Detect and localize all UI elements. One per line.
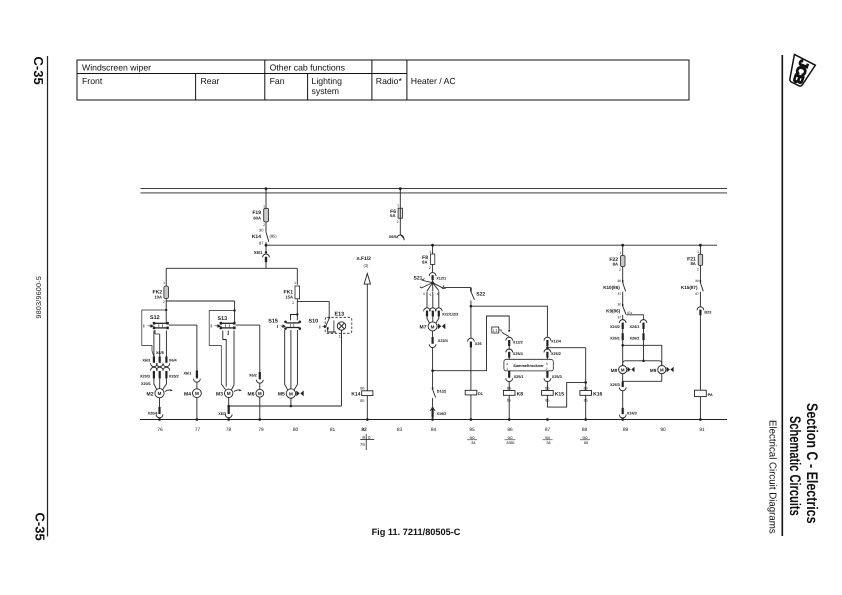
- wire branch to FK2/FK1: [166, 268, 297, 285]
- svg-text:2: 2: [697, 267, 699, 271]
- node M4 ground: [196, 418, 199, 421]
- svg-text:2: 2: [619, 268, 621, 272]
- motor M3: [216, 389, 242, 406]
- svg-text:M6: M6: [248, 391, 255, 397]
- svg-text:85: 85: [360, 399, 364, 403]
- svg-text:60A: 60A: [253, 215, 261, 220]
- svg-text:X26/2: X26/2: [630, 337, 640, 341]
- svg-text:90: 90: [660, 427, 666, 433]
- connector X24/2: [610, 320, 626, 334]
- svg-text:87: 87: [695, 292, 699, 296]
- svg-text:2: 2: [397, 220, 399, 224]
- svg-text:2: 2: [546, 367, 548, 371]
- svg-text:X6/2: X6/2: [249, 373, 257, 377]
- svg-text:2: 2: [429, 266, 431, 270]
- connector X6/3 X6/5 X6/4: [142, 351, 177, 367]
- motor M7 heater fan: [420, 316, 446, 337]
- relay contact K9(86): [606, 303, 632, 320]
- svg-text:76: 76: [157, 427, 163, 433]
- svg-text:M9: M9: [650, 368, 657, 373]
- node F22 top junction: [621, 244, 624, 256]
- switch S21: [414, 276, 447, 298]
- wire to M9 top: [623, 345, 662, 365]
- svg-text:M2: M2: [147, 391, 154, 397]
- svg-text:X6/1: X6/1: [184, 372, 192, 376]
- svg-text:X20/2: X20/2: [169, 375, 179, 379]
- fuse F6 5A: [390, 204, 402, 235]
- motor M4: [184, 389, 201, 420]
- svg-text:91: 91: [699, 427, 705, 433]
- svg-text:Heater / AC: Heater / AC: [411, 76, 456, 86]
- svg-text:K8: K8: [517, 391, 524, 397]
- svg-text:1: 1: [506, 367, 508, 371]
- label 98039600-5: [35, 276, 43, 319]
- svg-text:B23: B23: [704, 310, 711, 314]
- node K16 ground: [584, 418, 587, 421]
- svg-text:X26: X26: [475, 342, 482, 346]
- fuse FK2 10A: [153, 281, 169, 322]
- svg-text:2: 2: [163, 300, 165, 304]
- svg-text:K15: K15: [555, 391, 564, 397]
- svg-text:10A: 10A: [154, 295, 162, 300]
- wire M8 M9 bottoms: [623, 380, 662, 382]
- svg-text:M: M: [289, 391, 293, 396]
- svg-text:Electrical Circuit Diagrams: Electrical Circuit Diagrams: [767, 420, 778, 534]
- svg-text:X6/5: X6/5: [389, 235, 397, 239]
- fuse F19 60A: [252, 204, 268, 228]
- svg-text:88: 88: [582, 427, 588, 433]
- node M7 out junction: [431, 369, 434, 372]
- svg-text:Lighting: Lighting: [312, 76, 343, 86]
- svg-text:86: 86: [507, 427, 513, 433]
- svg-text:X25/1: X25/1: [514, 375, 524, 379]
- svg-text:X12/4: X12/4: [551, 340, 562, 344]
- switch S15: [268, 313, 301, 330]
- resistor PA: [695, 390, 713, 419]
- wire S13 to M6 branch: [236, 325, 260, 372]
- connector X12/2: [506, 337, 523, 350]
- switch S13: [209, 311, 235, 385]
- svg-text:S10: S10: [309, 318, 319, 324]
- right margin rule: [781, 55, 783, 536]
- motor M5 fan: [278, 389, 304, 406]
- svg-text:K15(87): K15(87): [681, 285, 698, 290]
- svg-text:5: 5: [430, 293, 432, 297]
- node F19 top junction: [265, 187, 268, 208]
- connector X24/3: [619, 408, 636, 420]
- svg-text:9803/9600-5: 9803/9600-5: [35, 276, 43, 319]
- node X12/4 junction: [546, 346, 586, 349]
- svg-text:5A: 5A: [390, 213, 395, 218]
- svg-text:X6/1: X6/1: [254, 250, 263, 255]
- label Section C - Electrics: [803, 403, 820, 524]
- svg-text:87: 87: [259, 241, 264, 246]
- svg-text:9|0: 9|0: [508, 436, 513, 440]
- svg-text:C-35: C-35: [33, 513, 48, 541]
- wire S21 outputs: [427, 291, 439, 308]
- connector X12/1: [429, 273, 446, 283]
- wire S15 to M5: [285, 330, 298, 390]
- diode D1: [465, 390, 483, 419]
- svg-text:15A: 15A: [285, 295, 293, 300]
- connector X6/1b M4: [184, 371, 201, 390]
- node K14 ground: [366, 418, 369, 421]
- node 89 ground: [621, 418, 624, 421]
- sheet reference under 82: [360, 434, 374, 450]
- svg-text:PA: PA: [708, 393, 713, 397]
- svg-text:X6/5: X6/5: [156, 351, 164, 355]
- connector X6/1: [254, 245, 270, 268]
- svg-text:M: M: [227, 391, 231, 396]
- label C-35 top: [31, 57, 46, 85]
- svg-text:84: 84: [431, 427, 437, 433]
- svg-text:30: 30: [617, 279, 621, 283]
- svg-text:11: 11: [339, 335, 343, 339]
- motor M8 fan: [611, 366, 635, 382]
- connector X25/4: [506, 349, 524, 359]
- svg-text:M: M: [431, 324, 435, 329]
- svg-text:X25/2: X25/2: [551, 352, 561, 356]
- svg-text:X12/1: X12/1: [436, 276, 446, 280]
- svg-text:30: 30: [695, 279, 699, 283]
- relay coil K16: [580, 387, 603, 420]
- svg-text:K10(86): K10(86): [603, 285, 620, 290]
- svg-text:80: 80: [293, 427, 299, 433]
- relay coil K14: [351, 386, 373, 419]
- svg-text:88: 88: [584, 441, 588, 445]
- switch S10: [309, 317, 337, 332]
- wire S13 outputs to M3: [221, 331, 234, 390]
- connector B23: [697, 307, 711, 390]
- node F8 top junction: [431, 244, 434, 254]
- lamp E13: [325, 312, 352, 406]
- svg-text:3: 3: [546, 362, 548, 366]
- junction box Sammeltrockner: [504, 359, 553, 371]
- motor M2: [147, 378, 173, 397]
- svg-text:75: 75: [360, 442, 365, 447]
- svg-text:Fan: Fan: [270, 76, 285, 86]
- thermostat L1: [492, 327, 510, 337]
- svg-text:89: 89: [623, 427, 629, 433]
- svg-text:1: 1: [697, 250, 699, 254]
- wire M7 out riser: [433, 316, 510, 371]
- motor M9 fan: [650, 366, 674, 382]
- svg-text:K14: K14: [351, 392, 360, 398]
- label C-35 bottom: [33, 513, 48, 541]
- svg-text:87: 87: [618, 292, 622, 296]
- wire FK1 to S10: [297, 301, 329, 317]
- svg-text:X22/1/2/3: X22/1/2/3: [442, 312, 458, 316]
- fuse FK1 15A: [284, 281, 300, 314]
- connector X26/3: [610, 381, 626, 408]
- svg-text:1: 1: [620, 251, 622, 255]
- svg-text:I: I: [143, 324, 144, 329]
- svg-text:Radio*: Radio*: [376, 76, 403, 86]
- wire S22 to X12/4: [471, 306, 548, 337]
- svg-text:L1: L1: [493, 328, 498, 333]
- svg-text:86: 86: [360, 386, 364, 390]
- ground bottom line: [140, 419, 727, 421]
- svg-text:X22/4: X22/4: [438, 339, 449, 343]
- caption Fig 11. 7211/80505-C: [372, 527, 461, 537]
- node X26/1 junction: [621, 344, 624, 347]
- svg-text:1: 1: [429, 250, 431, 254]
- node n.F1/2 feed arrow: [357, 256, 372, 391]
- svg-text:M4: M4: [184, 391, 191, 397]
- svg-text:1: 1: [263, 204, 265, 208]
- node M2 ground: [158, 418, 161, 421]
- svg-text:9|0: 9|0: [583, 436, 588, 440]
- fuse F22 8A: [609, 251, 625, 280]
- wire S21 to S22: [444, 287, 471, 289]
- svg-text:86: 86: [507, 387, 511, 391]
- svg-text:K16: K16: [593, 391, 602, 397]
- svg-text:K9(86): K9(86): [606, 308, 621, 313]
- fuse F8 8A: [422, 250, 435, 272]
- svg-text:6: 6: [423, 292, 425, 296]
- svg-text:9|0: 9|0: [545, 436, 550, 440]
- JCB logo: [785, 54, 816, 88]
- connector X22/4: [429, 337, 448, 388]
- connector X6/2: [249, 372, 263, 389]
- svg-text:X26/3: X26/3: [610, 383, 620, 387]
- connector X22/1/2/3: [424, 308, 459, 317]
- svg-text:8A: 8A: [613, 262, 618, 267]
- svg-text:8A: 8A: [690, 261, 695, 266]
- bus top double line: [141, 188, 728, 193]
- label Electrical Circuit Diagrams: [767, 420, 778, 534]
- connector X26/1: [610, 333, 623, 365]
- relay coil K8: [503, 387, 523, 420]
- node 91 ground: [699, 418, 702, 421]
- svg-text:X12/2: X12/2: [513, 341, 523, 345]
- svg-text:X24/3: X24/3: [627, 412, 637, 416]
- svg-text:77: 77: [195, 427, 201, 433]
- svg-text:K14: K14: [252, 234, 261, 240]
- svg-text:M3: M3: [216, 391, 223, 397]
- wire lamp return: [229, 405, 342, 407]
- svg-text:(3): (3): [364, 263, 370, 268]
- svg-text:4: 4: [506, 362, 508, 366]
- svg-text:X6/3: X6/3: [142, 358, 150, 362]
- sheet reference under 85: [467, 436, 477, 445]
- svg-text:84: 84: [472, 441, 476, 445]
- svg-text:82: 82: [361, 427, 367, 433]
- svg-text:D1(2): D1(2): [437, 389, 447, 393]
- svg-text:87: 87: [618, 315, 622, 319]
- svg-text:78: 78: [226, 427, 232, 433]
- left margin rule: [47, 56, 49, 537]
- svg-text:X6/3: X6/3: [218, 412, 226, 416]
- svg-text:9|0: 9|0: [470, 436, 475, 440]
- svg-text:M: M: [621, 367, 625, 372]
- sheet reference under 86: [505, 436, 516, 445]
- svg-text:87: 87: [545, 427, 551, 433]
- svg-text:2: 2: [263, 223, 265, 227]
- svg-text:30: 30: [617, 303, 621, 307]
- node M3 junction: [227, 405, 230, 408]
- motor M6: [248, 389, 264, 419]
- svg-text:S12: S12: [150, 315, 160, 321]
- svg-text:X25/3: X25/3: [552, 375, 562, 379]
- node M6 ground: [258, 418, 261, 421]
- svg-text:E13: E13: [335, 312, 345, 318]
- svg-text:Sammeltrockner: Sammeltrockner: [513, 363, 544, 368]
- svg-text:30: 30: [259, 228, 264, 233]
- wire FK2 to S13 feed: [166, 301, 236, 323]
- svg-text:Schematic Circuits: Schematic Circuits: [786, 416, 803, 516]
- svg-text:n.F1/2: n.F1/2: [357, 256, 372, 262]
- svg-text:X20/3: X20/3: [140, 375, 150, 379]
- node 85 ground: [470, 418, 473, 421]
- wire S12 outputs down: [154, 331, 167, 357]
- wire K9 87a to X24/1: [626, 315, 643, 320]
- svg-text:X26/1: X26/1: [610, 337, 620, 341]
- svg-text:I: I: [277, 324, 278, 329]
- svg-text:1: 1: [294, 281, 296, 285]
- svg-text:(85): (85): [270, 234, 278, 239]
- relay coil K15: [542, 387, 565, 403]
- node 87 ground dot: [546, 418, 549, 421]
- connector X25/1: [506, 371, 524, 391]
- svg-text:79: 79: [258, 427, 264, 433]
- wire K15 to K16: [547, 382, 585, 407]
- svg-text:X20/4: X20/4: [148, 412, 159, 416]
- sheet reference under 88: [580, 436, 590, 445]
- svg-text:M: M: [258, 391, 262, 396]
- fuse F21 8A: [687, 250, 703, 280]
- relay contact K14 (85): [252, 228, 277, 246]
- connector X26/2: [630, 333, 644, 361]
- svg-text:M7: M7: [420, 325, 427, 331]
- svg-text:Other cab functions: Other cab functions: [270, 63, 346, 73]
- node M3 ground: [227, 418, 230, 421]
- connector X25/3: [544, 371, 562, 391]
- svg-text:1: 1: [397, 204, 399, 208]
- svg-text:58: 58: [547, 441, 551, 445]
- connector X19/2: [430, 408, 446, 420]
- node bridge junction: [642, 360, 645, 363]
- switch S12: [142, 309, 169, 357]
- svg-text:86: 86: [584, 387, 588, 391]
- connector X25/2: [544, 349, 561, 359]
- connector X20/4: [148, 398, 163, 420]
- svg-text:Section C - Electrics: Section C - Electrics: [803, 403, 820, 524]
- relay contact K15(87): [681, 279, 703, 307]
- svg-text:system: system: [312, 86, 340, 96]
- node F6 top junction: [399, 187, 402, 208]
- connector X12/4: [544, 337, 562, 350]
- svg-text:M: M: [660, 367, 664, 372]
- label Schematic Circuits: [786, 416, 803, 516]
- svg-text:D1: D1: [478, 392, 483, 396]
- svg-text:X6/4: X6/4: [169, 358, 178, 362]
- svg-text:Fig 11. 7211/80505-C: Fig 11. 7211/80505-C: [372, 527, 461, 537]
- svg-text:2: 2: [292, 301, 294, 305]
- svg-text:S13: S13: [218, 316, 228, 322]
- svg-text:M: M: [195, 391, 199, 396]
- wire numbers row: [157, 427, 705, 433]
- header table: [77, 60, 689, 100]
- node 87 junction on bus: [265, 244, 268, 247]
- node F21 top junction: [699, 244, 702, 254]
- svg-text:M8: M8: [611, 368, 618, 373]
- thermal switch D1(2): [433, 388, 447, 408]
- bus single line: [266, 244, 717, 246]
- wire S12 to M4 branch: [169, 325, 197, 370]
- svg-text:85: 85: [469, 427, 475, 433]
- node 84 ground: [431, 418, 434, 421]
- sheet reference under 87: [543, 436, 553, 445]
- node S22 junction: [470, 305, 473, 308]
- svg-text:X25/4: X25/4: [513, 352, 524, 356]
- relay contact K10(86): [603, 279, 625, 304]
- svg-text:I: I: [211, 324, 212, 329]
- svg-text:8385: 8385: [507, 441, 515, 445]
- svg-text:X20/1: X20/1: [141, 382, 151, 386]
- svg-text:X19/2: X19/2: [437, 412, 447, 416]
- svg-text:X24/1: X24/1: [630, 325, 640, 329]
- svg-text:S21: S21: [414, 276, 423, 282]
- svg-text:83: 83: [397, 427, 403, 433]
- svg-text:Rear: Rear: [201, 76, 220, 86]
- svg-text:C-35: C-35: [31, 57, 46, 85]
- svg-text:S22: S22: [476, 291, 485, 297]
- svg-text:81: 81: [330, 427, 336, 433]
- connector X6/5b wire end: [389, 235, 404, 241]
- node K8 ground: [508, 418, 511, 421]
- connector X6/3b: [218, 406, 232, 420]
- connector X26: [468, 306, 482, 390]
- connector X20/3 X20/2 X20/1: [140, 367, 179, 386]
- switch S22: [471, 288, 486, 307]
- svg-text:1: 1: [163, 281, 165, 285]
- svg-text:Windscreen wiper: Windscreen wiper: [82, 63, 151, 73]
- svg-text:86: 86: [545, 387, 549, 391]
- svg-text:I: I: [319, 324, 320, 329]
- node M5 junction: [290, 405, 293, 408]
- svg-text:8A: 8A: [422, 260, 427, 265]
- wire bridge M8-M9: [623, 361, 662, 366]
- svg-text:Front: Front: [82, 76, 103, 86]
- node K16 top junction: [584, 348, 587, 391]
- svg-text:M: M: [158, 391, 162, 396]
- svg-text:X24/2: X24/2: [610, 325, 620, 329]
- svg-text:M5: M5: [278, 392, 285, 398]
- connector X24/1: [630, 320, 647, 334]
